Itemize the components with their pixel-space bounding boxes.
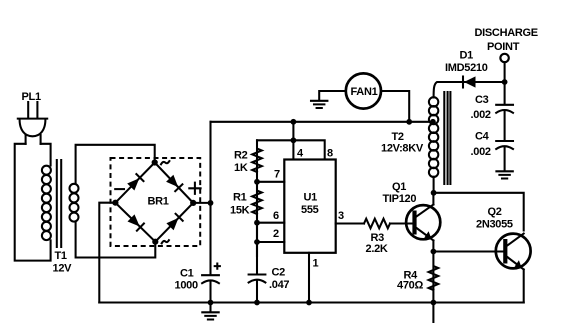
wire: pin 2 (257, 241, 284, 243)
svg-text:BR1: BR1 (148, 196, 169, 208)
svg-text:2: 2 (273, 228, 279, 240)
capacitor C2 (249, 275, 266, 283)
transistor Q2 2N3055 (496, 234, 531, 270)
wire: T2 top to D1 to discharge node (445, 81, 505, 83)
wire: pin 1 to rail (308, 253, 310, 303)
label minus (115, 188, 124, 190)
svg-text:2.2K: 2.2K (366, 243, 388, 255)
svg-text:1: 1 (313, 258, 319, 270)
node pin6 junction (254, 220, 260, 226)
node C1 rail junction (208, 300, 214, 306)
svg-text:15K: 15K (230, 205, 250, 217)
svg-text:T1: T1 (55, 250, 67, 262)
node Q1 emitter junction (431, 249, 437, 255)
wire: BR1 plus to +V node (193, 202, 210, 204)
wire: R3 to Q1 base (390, 222, 415, 224)
wire: Q1 collector up (432, 193, 434, 205)
resistor R3 (364, 219, 390, 229)
transformer T1 primary winding (42, 166, 51, 240)
svg-text:C3: C3 (475, 94, 489, 106)
wire: pin 3 lead (336, 222, 364, 224)
diode BR1 top-right (166, 175, 182, 191)
transistor Q1 TIP120 (406, 205, 440, 241)
wire: pin 7 (257, 181, 284, 183)
svg-text:DISCHARGE: DISCHARGE (475, 27, 538, 39)
node R4 rail junction (431, 300, 437, 306)
svg-text:.002: .002 (471, 109, 491, 121)
svg-text:1K: 1K (234, 162, 248, 174)
label plus (189, 183, 200, 194)
motor FAN1 (346, 73, 381, 108)
bridge BR1 dashed box (111, 158, 201, 246)
resistor R1 (252, 182, 262, 257)
wire: C3 to C4 (504, 111, 506, 140)
wire: Q2 emitter to rail (523, 270, 525, 303)
wire: FAN1 left to ground (319, 91, 346, 101)
ground below C4 (496, 171, 512, 178)
capacitor C4 (496, 141, 513, 149)
svg-text:12V:8KV: 12V:8KV (381, 143, 424, 155)
node pin4/8 wire junction (291, 137, 297, 143)
svg-text:1000: 1000 (175, 280, 198, 292)
svg-text:D1: D1 (460, 50, 474, 62)
node FAN1 bus junction (406, 119, 412, 125)
svg-text:Q1: Q1 (392, 181, 406, 193)
transformer T2 core (443, 92, 445, 184)
svg-text:7: 7 (274, 169, 280, 181)
svg-text:PL1: PL1 (22, 91, 41, 103)
node pin1 rail junction (306, 300, 312, 306)
svg-text:C4: C4 (475, 131, 490, 143)
svg-text:IMD5210: IMD5210 (445, 62, 488, 74)
wire: T1 primary loop (15, 144, 51, 261)
svg-text:C1: C1 (180, 268, 194, 280)
svg-text:C2: C2 (272, 267, 286, 279)
ground FAN1 (311, 101, 327, 108)
node T2 tap (bus) (430, 119, 436, 125)
capacitor C1 (202, 275, 219, 283)
node pin7 junction (254, 179, 260, 185)
svg-text:.047: .047 (269, 279, 289, 291)
svg-text:3: 3 (338, 210, 344, 222)
svg-text:T2: T2 (392, 131, 404, 143)
capacitor C3 (496, 105, 513, 113)
wire: +12V top bus (211, 121, 433, 123)
wire: bottom ground rail (99, 301, 523, 303)
svg-text:U1: U1 (304, 192, 318, 204)
bridge BR1 diamond wires (115, 163, 193, 242)
node C2 rail junction (254, 300, 260, 306)
plug PL1 (18, 102, 47, 144)
svg-text:2N3055: 2N3055 (476, 218, 513, 230)
node BR1 top vertex (152, 159, 158, 165)
wire: node to C2 to rail (256, 242, 258, 303)
wire: Q1 emitter to Q2 base (433, 250, 505, 252)
svg-text:FAN1: FAN1 (351, 86, 378, 98)
node D1 output junction (502, 79, 508, 85)
wire: bus to pins 4,8 (257, 122, 325, 160)
node bus junction (291, 119, 297, 125)
wire: down to pin2 node (256, 223, 258, 242)
wire: T2 bottom to Q2 collector (434, 193, 524, 231)
svg-text:.002: .002 (471, 146, 491, 158)
resistor R4 (429, 252, 439, 323)
wire: T1 secondary top to BR1 ac top (76, 145, 155, 184)
svg-text:POINT: POINT (487, 41, 520, 53)
diode BR1 top-left (127, 174, 143, 190)
diode BR1 bottom-right (166, 214, 182, 230)
transformer T1 core (57, 160, 61, 247)
node BR1 left vertex (112, 200, 118, 206)
node BR1 bottom vertex (152, 239, 158, 245)
diode D1 (463, 76, 476, 87)
svg-text:TIP120: TIP120 (383, 193, 417, 205)
wire: Q1 emitter down (432, 241, 434, 252)
node BR1 right vertex (190, 200, 196, 206)
svg-text:R1: R1 (233, 192, 247, 204)
wire: C4 to ground (504, 147, 506, 171)
transformer T1 secondary winding (70, 184, 79, 222)
diode BR1 bottom-left (128, 214, 144, 230)
svg-text:Q2: Q2 (488, 206, 502, 218)
ground below C1 (209, 303, 211, 313)
node pin2 junction (254, 239, 260, 245)
IC U1 555 box (284, 160, 335, 253)
label ac tilde top (161, 161, 169, 164)
svg-text:R2: R2 (234, 150, 248, 162)
svg-text:555: 555 (301, 204, 319, 216)
svg-text:12V: 12V (53, 263, 73, 275)
wire: discharge point down (504, 62, 506, 82)
node T2 bottom junction (431, 190, 437, 196)
label ac tilde bottom (162, 240, 169, 243)
svg-text:8: 8 (327, 148, 333, 160)
resistor R2 (252, 140, 262, 257)
transformer T2 winding (429, 82, 445, 193)
terminal discharge point (500, 54, 508, 62)
label C1 plus (215, 264, 220, 269)
wire: node to C3 (504, 82, 506, 104)
svg-text:470Ω: 470Ω (397, 280, 423, 292)
wire: FAN1 right to bus (381, 91, 409, 122)
wire: BR1 minus to ground rail (99, 203, 115, 303)
node plus rail junction (208, 200, 214, 206)
wire: +V vertical with C1 (209, 122, 211, 303)
svg-text:6: 6 (273, 210, 279, 222)
wire: T1 secondary bottom to BR1 ac bottom (76, 222, 156, 258)
wire: pin 6 (257, 222, 284, 224)
